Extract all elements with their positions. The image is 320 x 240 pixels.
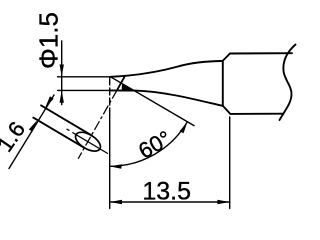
wire: tip top taper curve <box>111 61 223 77</box>
svg-text:Φ1.5: Φ1.5 <box>33 12 63 69</box>
wire: 60 degree arc <box>110 122 188 167</box>
wire: bottom extension line <box>58 89 110 91</box>
wire: break line S-curve <box>280 45 296 121</box>
arrowhead: 13.5 left <box>110 200 122 204</box>
svg-text:13.5: 13.5 <box>142 177 191 205</box>
wire: aux view cylinder bottom edge <box>33 118 84 148</box>
wire: vertical extension line at tip end (dashed upper part) <box>109 78 111 112</box>
arrowhead: phi1.5 top (pointing down) <box>60 65 64 77</box>
arrowhead: 13.5 right <box>217 200 229 204</box>
wire: aux view cylinder top edge <box>41 105 92 135</box>
wire: bottom chamfer <box>223 106 230 114</box>
wire: right extension line for 13.5 <box>229 117 231 209</box>
wire: 1.6 dimension line <box>9 95 54 169</box>
wire: 13.5 dimension line <box>110 201 230 203</box>
svg-text:60°: 60° <box>134 126 175 164</box>
wire: phi1.5 vertical dimension line <box>61 41 63 105</box>
arrowhead: phi1.5 bottom (pointing up) <box>60 90 64 102</box>
wire: taper/shank junction vertical <box>222 61 224 106</box>
wire: bevel face edge seen on edge (60 deg to axis) <box>117 77 125 90</box>
svg-text:1.6: 1.6 <box>0 117 30 156</box>
wire: 60-degree angle reference line <box>111 77 195 126</box>
arrowhead: arc bottom end (pointing left) <box>110 164 122 169</box>
wire: top chamfer <box>223 54 231 62</box>
arrowhead: 1.6 upper (pointing down-left at P2) <box>45 96 53 108</box>
wire: shank top edge <box>230 52 292 54</box>
wire: tip bottom taper curve <box>110 90 223 106</box>
wire: shank bottom edge <box>230 113 283 115</box>
wire: projection center line from face to aux view (dash-dot) <box>78 90 117 158</box>
arrowhead: aux view direction arrow on angle line <box>122 84 134 91</box>
node B: aux view bevel face ellipse <box>72 128 103 154</box>
wire: aux view axis center line (dash-dot) <box>67 129 108 153</box>
arrowhead: 1.6 lower (pointing up-right at P1) <box>29 120 37 132</box>
wire: top outline + phi1.5 top extension line <box>58 76 111 78</box>
arrowhead: arc top end (pointing up-right along tangent) <box>180 122 188 134</box>
